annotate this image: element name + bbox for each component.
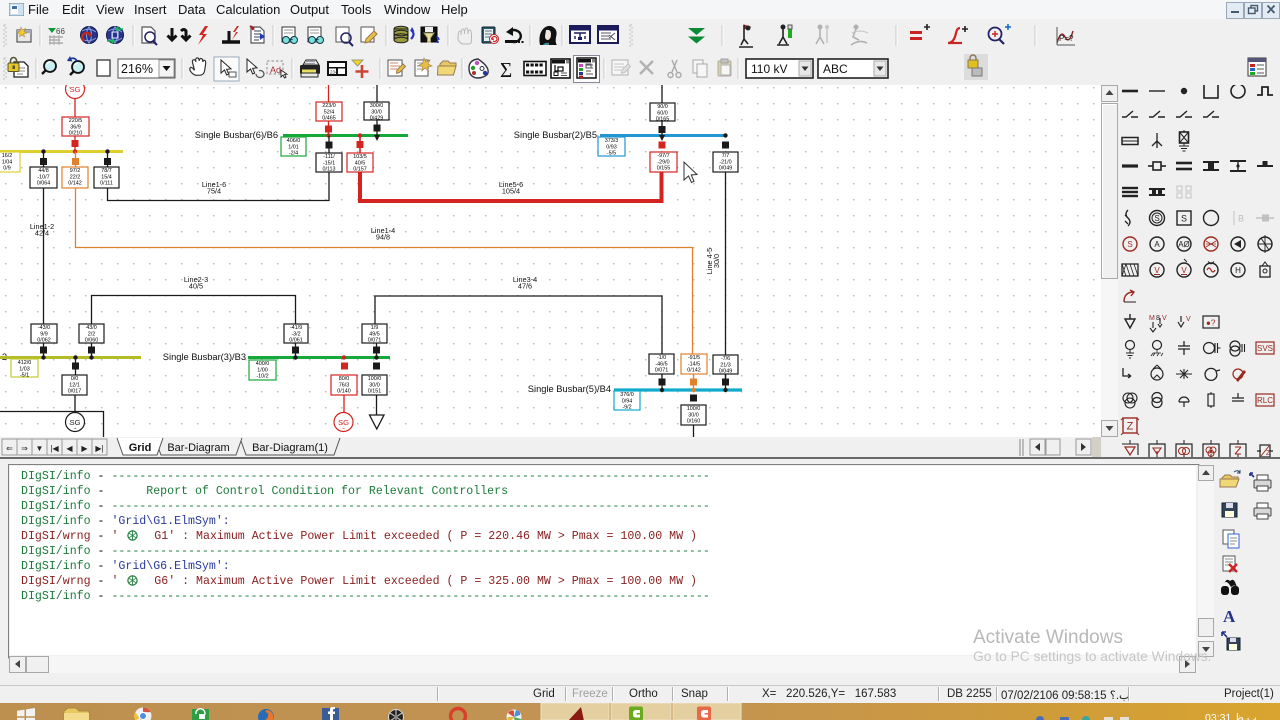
- svg-text:-91/5: -91/5: [688, 355, 700, 361]
- svg-text:A: A: [1154, 240, 1160, 249]
- node B6-L56: [358, 133, 362, 137]
- voltage box B2 (yellow-green): [11, 359, 38, 379]
- svg-text:376/0: 376/0: [620, 392, 634, 398]
- svg-text:0/140: 0/140: [337, 389, 351, 395]
- svg-text:0/160: 0/160: [687, 419, 701, 425]
- svg-text:0/0: 0/0: [71, 376, 79, 382]
- svg-text:234: 234: [330, 70, 338, 75]
- svg-text:75/4: 75/4: [207, 187, 221, 196]
- svg-text:9/9: 9/9: [40, 331, 48, 337]
- node B4-a: [660, 388, 664, 392]
- svg-text:-111/: -111/: [323, 154, 335, 160]
- svg-text:97/2: 97/2: [70, 168, 81, 174]
- svg-text:0/151: 0/151: [368, 389, 382, 395]
- result box Line1-4 end B: [62, 167, 88, 188]
- svg-text:0/060: 0/060: [85, 338, 99, 344]
- switch Line1-2/B2 (black): [40, 347, 47, 354]
- svg-text:0/111: 0/111: [100, 181, 113, 187]
- svg-text:0/071: 0/071: [368, 338, 382, 344]
- switch Line2-3/B3 (black): [292, 347, 299, 354]
- node B1-a: [41, 149, 45, 153]
- result box load L4: [681, 405, 706, 425]
- switch L5 (black): [659, 126, 666, 133]
- svg-text:▼: ▼: [36, 444, 44, 453]
- line Line1-2: [43, 188, 45, 324]
- wire G6 box to B6: [328, 121, 330, 136]
- result box G2: [62, 375, 87, 395]
- svg-text:Single Busbar(5)/B4: Single Busbar(5)/B4: [528, 384, 611, 394]
- svg-text:400/0: 400/0: [256, 361, 270, 367]
- voltage box B4 (cyan): [614, 391, 640, 411]
- svg-text:90/0: 90/0: [657, 104, 668, 110]
- switch A (black): [40, 158, 47, 165]
- node B3-G6: [342, 355, 346, 359]
- svg-text:110 kV: 110 kV: [751, 62, 787, 76]
- switch L6 (black): [374, 125, 381, 132]
- svg-text:Z: Z: [1266, 450, 1271, 457]
- svg-text:220/5: 220/5: [69, 118, 83, 124]
- wire B6 to Line1-6 box: [328, 136, 330, 154]
- svg-text:RLC: RLC: [1257, 396, 1273, 405]
- voltage box B6 (green): [281, 137, 306, 157]
- wire B1 to cub A: [43, 152, 45, 168]
- svg-text:8: 8: [1156, 315, 1160, 322]
- svg-text:S: S: [1154, 214, 1159, 223]
- svg-text:0/064: 0/064: [37, 181, 51, 187]
- svg-text:2/2: 2/2: [88, 331, 96, 337]
- result box load L6: [364, 102, 389, 122]
- canvas vertical scrollbar: [1101, 85, 1118, 437]
- svg-text:Bar-Diagram(1): Bar-Diagram(1): [252, 442, 328, 454]
- svg-text:0/049: 0/049: [719, 166, 733, 172]
- line Line4-5: [725, 172, 727, 379]
- svg-text:-46/5: -46/5: [655, 361, 667, 367]
- svg-text:60/0: 60/0: [657, 110, 668, 116]
- svg-text:-14/5: -14/5: [688, 361, 700, 367]
- busbar B2 (olive): [0, 356, 141, 359]
- node B3-a: [293, 355, 297, 359]
- svg-text:30/0: 30/0: [371, 109, 382, 115]
- svg-text:A: A: [1223, 607, 1236, 626]
- svg-text:52/4: 52/4: [324, 109, 335, 115]
- result box Line5-6 end B6 (overloaded): [347, 153, 373, 173]
- result box load L5: [650, 103, 675, 123]
- result box Line4-5 end B5: [713, 152, 738, 172]
- svg-text:V: V: [1162, 315, 1167, 322]
- wire G3 box to G3: [343, 395, 345, 412]
- svg-text:0/94: 0/94: [622, 398, 633, 404]
- svg-text:1/9: 1/9: [371, 325, 379, 331]
- switch G2 (black): [72, 363, 79, 370]
- svg-text:1/04: 1/04: [2, 159, 13, 165]
- svg-text:-97/7: -97/7: [657, 153, 669, 159]
- switch load L4 (black): [690, 395, 697, 402]
- busbar B4 (cyan): [614, 388, 742, 391]
- svg-text:30/0: 30/0: [369, 382, 380, 388]
- switch C (black): [104, 158, 111, 165]
- svg-text:42/4: 42/4: [35, 229, 49, 238]
- svg-text:⇒: ⇒: [21, 444, 28, 453]
- svg-text:Grid: Grid: [129, 442, 152, 454]
- node B5-L45: [723, 133, 727, 137]
- svg-text:-5/5: -5/5: [607, 151, 616, 157]
- switch B (orange): [72, 158, 79, 165]
- busbar B3 (green): [248, 356, 390, 359]
- mouse cursor: [684, 162, 697, 183]
- generator G3 (SG, overloaded red): [334, 413, 353, 433]
- generator G1 (SG): [66, 80, 85, 99]
- label Line1-4: [371, 226, 395, 242]
- svg-text:B: B: [1238, 214, 1244, 224]
- node B4-b: [691, 388, 695, 392]
- svg-text:300/0: 300/0: [370, 103, 384, 109]
- svg-text:Ad: Ad: [270, 65, 281, 75]
- voltage box B1 (yellow): [0, 152, 20, 172]
- result box Line2-3 end B3: [284, 324, 308, 344]
- svg-text:-5/1: -5/1: [20, 373, 29, 379]
- wire load L5 from top: [661, 85, 663, 103]
- svg-text:373/3: 373/3: [605, 138, 619, 144]
- svg-text:80/0: 80/0: [339, 376, 350, 382]
- switch Line4-5/B4 (black): [722, 379, 729, 386]
- switch Line1-4/B4 (orange): [690, 379, 697, 386]
- node B1-G1: [73, 149, 77, 153]
- svg-text:103/5: 103/5: [353, 154, 367, 160]
- switch G3 (red): [341, 363, 348, 370]
- wire G6 from top: [328, 85, 330, 102]
- svg-text:36/9: 36/9: [70, 124, 81, 130]
- svg-text:-15/1: -15/1: [323, 160, 335, 166]
- result box Line1-2 end A: [30, 167, 57, 188]
- wire to B2 area (bottom-left): [0, 412, 104, 438]
- wire G2 box to G2: [74, 395, 76, 412]
- label Line1-6: [202, 180, 226, 196]
- node B2-b: [73, 355, 77, 359]
- svg-text:Σ: Σ: [500, 58, 512, 82]
- line Line3-4: [375, 296, 662, 354]
- svg-text:0/93: 0/93: [606, 144, 617, 150]
- wire L4 box down: [693, 425, 695, 437]
- voltage box B5 (blue): [598, 137, 625, 157]
- wire Line4-5 box to B4: [725, 374, 727, 390]
- svg-text:76/3: 76/3: [339, 382, 350, 388]
- svg-text:AØ: AØ: [1178, 240, 1190, 249]
- wire Line2-3 box to B2: [91, 343, 93, 358]
- svg-text:H: H: [1235, 266, 1241, 275]
- label Single Busbar(2)/B5: [514, 130, 597, 140]
- svg-text:S: S: [1181, 214, 1187, 224]
- svg-text:-9/2: -9/2: [622, 405, 631, 411]
- result box Line1-4 end B4: [681, 354, 707, 374]
- svg-text:412/0: 412/0: [18, 360, 32, 366]
- wire B6 to Line5-6 box: [359, 136, 361, 154]
- line Line1-4: [76, 188, 693, 354]
- node B6-G6: [326, 133, 330, 137]
- svg-text:V: V: [1154, 266, 1160, 275]
- result box G3 (overloaded): [331, 375, 357, 395]
- svg-text:Single Busbar(3)/B3: Single Busbar(3)/B3: [163, 352, 246, 362]
- wire G1 box to switch: [74, 136, 76, 151]
- svg-text:●?: ●?: [1206, 319, 1216, 328]
- svg-text:0/142: 0/142: [687, 368, 701, 374]
- load arrow L6: [374, 135, 380, 141]
- svg-text:406/0: 406/0: [287, 138, 301, 144]
- svg-text:~: ~: [342, 427, 345, 433]
- svg-text:V: V: [1181, 266, 1187, 275]
- svg-text:⇐: ⇐: [6, 444, 13, 453]
- svg-text:0/157: 0/157: [353, 167, 367, 173]
- svg-text:22/2: 22/2: [70, 174, 81, 180]
- svg-text:0/142: 0/142: [68, 181, 82, 187]
- switch Line4-5/B5 (black): [722, 142, 729, 149]
- svg-text:M: M: [1149, 315, 1155, 322]
- label Single Busbar(5)/B4: [528, 384, 611, 394]
- svg-text:7/7: 7/7: [722, 153, 730, 159]
- line Line5-6 (overloaded, thick red): [360, 172, 662, 201]
- svg-text:66: 66: [56, 27, 65, 36]
- svg-text:SG: SG: [70, 85, 81, 94]
- result box Line5-6 end B5 (overloaded): [650, 152, 677, 172]
- generator G2 (SG): [66, 413, 85, 433]
- switch Line1-6/B6 (black): [326, 142, 333, 149]
- result box Line1-6 end B6: [316, 153, 342, 173]
- svg-text:1/03: 1/03: [19, 366, 30, 372]
- svg-text:Single Busbar(6)/B6: Single Busbar(6)/B6: [195, 130, 278, 140]
- label Line5-6: [499, 180, 523, 196]
- svg-text:S: S: [1127, 240, 1132, 249]
- svg-text:0/9: 0/9: [3, 166, 11, 172]
- line Line2-3: [92, 296, 296, 325]
- result box Line3-4 end B4: [649, 354, 674, 374]
- svg-text:100/0: 100/0: [687, 406, 701, 412]
- svg-text:1/00: 1/00: [257, 367, 268, 373]
- switch Line3-4/B4 (black): [659, 379, 666, 386]
- svg-text:12/1: 12/1: [69, 382, 80, 388]
- svg-text:-41/9: -41/9: [290, 325, 302, 331]
- label Line3-4: [513, 275, 537, 291]
- svg-text:0/155: 0/155: [657, 166, 671, 172]
- result box G6: [316, 102, 342, 122]
- wire L5 box to B5: [661, 121, 663, 137]
- label Single Busbar(3)/B3: [163, 352, 246, 362]
- svg-text:-43/0: -43/0: [38, 325, 50, 331]
- busbar B5 (blue): [600, 134, 726, 137]
- svg-text:V: V: [1186, 316, 1191, 323]
- wire load L6 from top: [376, 85, 378, 102]
- result box Line2-3 end B2: [79, 324, 104, 344]
- wire G1 to box: [74, 99, 76, 118]
- svg-text:44/8: 44/8: [38, 168, 49, 174]
- svg-text:0/113: 0/113: [322, 167, 335, 173]
- result box Line1-2 end B2: [31, 324, 57, 344]
- node B3-b: [374, 355, 378, 359]
- svg-text:47/6: 47/6: [518, 282, 532, 291]
- svg-text:Single Busbar(2)/B5: Single Busbar(2)/B5: [514, 130, 597, 140]
- svg-text:-29/0: -29/0: [657, 159, 669, 165]
- svg-text:|◀: |◀: [50, 444, 59, 453]
- label Line2-3: [184, 275, 208, 291]
- svg-text:223/0: 223/0: [322, 103, 336, 109]
- svg-text:◀: ◀: [66, 444, 73, 453]
- svg-text:21/3: 21/3: [720, 362, 731, 368]
- svg-text:16/2: 16/2: [2, 153, 13, 159]
- svg-text:SVS: SVS: [1257, 344, 1273, 353]
- svg-text:30/0: 30/0: [712, 254, 721, 268]
- switch Line5-6/B6 (red): [357, 141, 364, 148]
- switch G6 (red): [325, 126, 332, 133]
- wire B1 to cub C: [107, 152, 109, 168]
- svg-text:ABC: ABC: [823, 62, 848, 76]
- svg-text:P=?: P=?: [1059, 34, 1074, 43]
- svg-text:~: ~: [74, 427, 77, 433]
- node B4-c: [723, 388, 727, 392]
- result box load L3: [362, 375, 387, 395]
- wire B2 to G2 box: [75, 358, 77, 376]
- svg-text:49/5: 49/5: [369, 331, 380, 337]
- node B2-c: [89, 355, 93, 359]
- svg-text:0/049: 0/049: [719, 369, 733, 375]
- svg-text:-10/2: -10/2: [256, 374, 268, 380]
- result box Line4-5 end B4: [713, 355, 738, 375]
- label busbar B2 (cut): [2, 352, 7, 362]
- svg-text:Z: Z: [1127, 421, 1134, 433]
- svg-text:-7/6: -7/6: [721, 356, 730, 362]
- svg-text:0/061: 0/061: [289, 338, 303, 344]
- svg-text:0/071: 0/071: [655, 368, 669, 374]
- svg-text:0/062: 0/062: [37, 338, 51, 344]
- svg-text:-21/0: -21/0: [719, 159, 731, 165]
- svg-text:78/7: 78/7: [101, 168, 112, 174]
- svg-text:40/5: 40/5: [355, 160, 366, 166]
- busbar B6 (green): [283, 134, 408, 137]
- svg-text:▶: ▶: [81, 444, 88, 453]
- line Line1-6: [108, 172, 330, 201]
- node B1-c: [105, 149, 109, 153]
- voltage box B3 (green): [249, 360, 276, 380]
- switch Line2-3/B2 (black): [88, 347, 95, 354]
- switch Line5-6/B5 (red): [659, 142, 666, 149]
- wire B1 to cub B: [75, 152, 77, 168]
- result box Line1-6 end C: [94, 167, 119, 188]
- svg-text:-10/7: -10/7: [37, 174, 49, 180]
- svg-text:15/4: 15/4: [101, 174, 112, 180]
- label Line4-5 (vertical): [705, 248, 721, 274]
- result box Line3-4 end B3: [362, 324, 387, 344]
- node B2-a: [41, 355, 45, 359]
- svg-text:-1/0: -1/0: [657, 355, 666, 361]
- label Line1-2: [30, 222, 54, 238]
- wire Line2-3 box to B3: [295, 343, 297, 358]
- wire Line1-2 box to B2: [43, 343, 45, 358]
- svg-text:0/017: 0/017: [68, 389, 82, 395]
- switch Line3-4/B3 (black): [373, 347, 380, 354]
- svg-text:216%: 216%: [121, 62, 153, 76]
- switch G1 (closed, red): [72, 140, 79, 147]
- svg-text:30/0: 30/0: [688, 412, 699, 418]
- svg-text:-3/2: -3/2: [291, 331, 300, 337]
- wire Line3-4 box to B3: [376, 343, 378, 358]
- load symbol L3 (triangle): [370, 415, 385, 429]
- svg-text:-2/4: -2/4: [289, 151, 298, 157]
- svg-text:43/0: 43/0: [86, 325, 97, 331]
- result box G1: [62, 117, 89, 137]
- svg-text:0/210: 0/210: [69, 131, 83, 137]
- svg-text:Bar-Diagram: Bar-Diagram: [167, 442, 229, 454]
- switch load L3 (black): [373, 363, 380, 370]
- wire Line1-4 box to B4: [693, 374, 695, 390]
- wire L6 box to B6: [376, 120, 378, 137]
- load arrow L5: [659, 135, 665, 141]
- svg-text:0/465: 0/465: [322, 116, 336, 122]
- svg-text:105/4: 105/4: [502, 187, 520, 196]
- label Single Busbar(6)/B6: [195, 130, 278, 140]
- svg-text:94/8: 94/8: [376, 233, 390, 242]
- wire Line3-4 box to B4: [661, 374, 663, 390]
- svg-text:100/0: 100/0: [368, 376, 382, 382]
- busbar B1 (yellow): [0, 150, 123, 153]
- svg-text:03:31 ب.ظ: 03:31 ب.ظ: [1205, 712, 1257, 720]
- svg-text:▶|: ▶|: [95, 444, 103, 453]
- wire L3 box to load: [376, 395, 378, 415]
- svg-text:40/5: 40/5: [189, 282, 203, 291]
- svg-text:1/01: 1/01: [288, 144, 299, 150]
